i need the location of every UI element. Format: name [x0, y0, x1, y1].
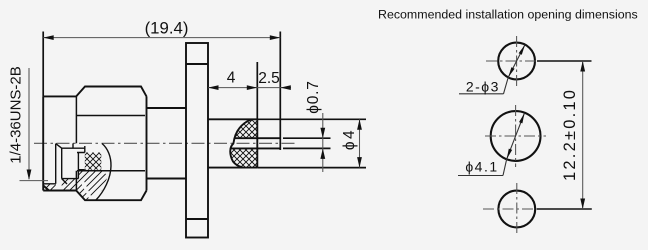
- svg-text:1/4-36UNS-2B: 1/4-36UNS-2B: [8, 66, 25, 164]
- svg-text:2.5: 2.5: [258, 70, 280, 87]
- svg-text:Recommended installation openi: Recommended installation opening dimensi…: [378, 8, 638, 22]
- svg-text:ϕ0.7: ϕ0.7: [305, 80, 322, 113]
- svg-text:ϕ4: ϕ4: [341, 128, 358, 150]
- svg-text:12.2±0.10: 12.2±0.10: [561, 88, 579, 181]
- svg-text:4: 4: [227, 69, 236, 86]
- svg-text:ϕ4.1: ϕ4.1: [465, 159, 498, 175]
- svg-text:(19.4): (19.4): [145, 19, 189, 38]
- svg-text:2-ϕ3: 2-ϕ3: [466, 79, 500, 95]
